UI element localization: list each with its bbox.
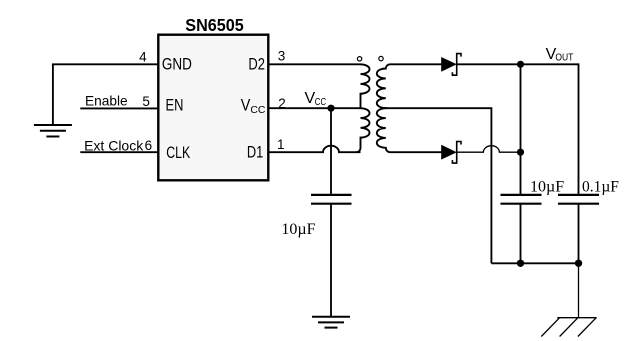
junction dot rail-C2 — [517, 260, 524, 267]
bottom rail wire — [491, 262, 578, 264]
junction dot VOUT node — [517, 61, 524, 68]
svg-text:10µF: 10µF — [530, 179, 564, 196]
VOUT rail wire — [521, 64, 579, 195]
capacitor C1 10uF plates — [311, 195, 352, 204]
diode D3 (top rectifier, Schottky) — [442, 54, 461, 76]
svg-text:4: 4 — [139, 49, 147, 64]
svg-text:D2: D2 — [248, 55, 265, 74]
svg-text:CC: CC — [250, 104, 265, 116]
diode D4 (bottom rectifier, Schottky) — [442, 142, 461, 164]
wire C2 to bottom rail — [520, 204, 522, 264]
svg-text:3: 3 — [278, 48, 286, 63]
wire VOUT node down through D4 node to C2 — [520, 64, 522, 195]
IC U1 SN6505 body — [158, 35, 268, 181]
svg-text:SN6505: SN6505 — [185, 15, 244, 35]
phase dot secondary — [379, 56, 383, 60]
svg-text:6: 6 — [145, 138, 153, 153]
svg-text:CC: CC — [315, 97, 326, 108]
transformer T1 secondary winding — [377, 64, 442, 152]
junction dot VCC node — [327, 105, 334, 112]
ground symbol (below C1) — [312, 317, 350, 328]
wire D2 pin 3 to transformer primary top + primary winding T1 left — [268, 64, 369, 152]
capacitor C2 10uF plates — [501, 195, 542, 204]
junction dot rail-C3 — [575, 260, 582, 267]
capacitor C3 0.1uF plates — [558, 195, 599, 204]
svg-text:GND: GND — [162, 54, 192, 73]
wire secondary center tap to bottom rail — [386, 108, 492, 263]
svg-text:D1: D1 — [247, 143, 263, 162]
wire Ext Clock to CLK pin 6 — [80, 151, 158, 153]
svg-text:Enable: Enable — [85, 93, 128, 108]
phase dot primary — [357, 57, 361, 61]
wire rail to chassis ground — [578, 263, 580, 317]
wire VCC node down to capacitor C1 — [330, 108, 332, 195]
svg-text:OUT: OUT — [555, 52, 573, 63]
svg-text:5: 5 — [142, 94, 150, 109]
wire D1 pin 1 to primary bottom with hop over C1 branch — [268, 146, 360, 153]
wire D3 out to VOUT node — [457, 63, 521, 65]
wire C3 to bottom rail — [578, 204, 580, 264]
svg-text:10µF: 10µF — [281, 221, 315, 238]
chassis ground symbol — [541, 318, 596, 337]
wire Enable to EN pin 5 — [80, 107, 158, 109]
junction dot D4 output node — [517, 149, 524, 156]
wire C1 to ground — [330, 204, 332, 317]
svg-text:CLK: CLK — [166, 143, 190, 162]
wire VCC pin 2 to primary center tap — [268, 107, 360, 109]
svg-text:1: 1 — [277, 137, 285, 152]
svg-text:0.1µF: 0.1µF — [582, 179, 619, 196]
wire GND pin 4 to ground — [53, 64, 158, 125]
svg-text:EN: EN — [166, 96, 184, 115]
ground symbol (left, signal ground) — [34, 125, 72, 137]
svg-text:Ext Clock: Ext Clock — [84, 137, 144, 153]
wire D4 out with hop over center tap line — [457, 146, 521, 153]
